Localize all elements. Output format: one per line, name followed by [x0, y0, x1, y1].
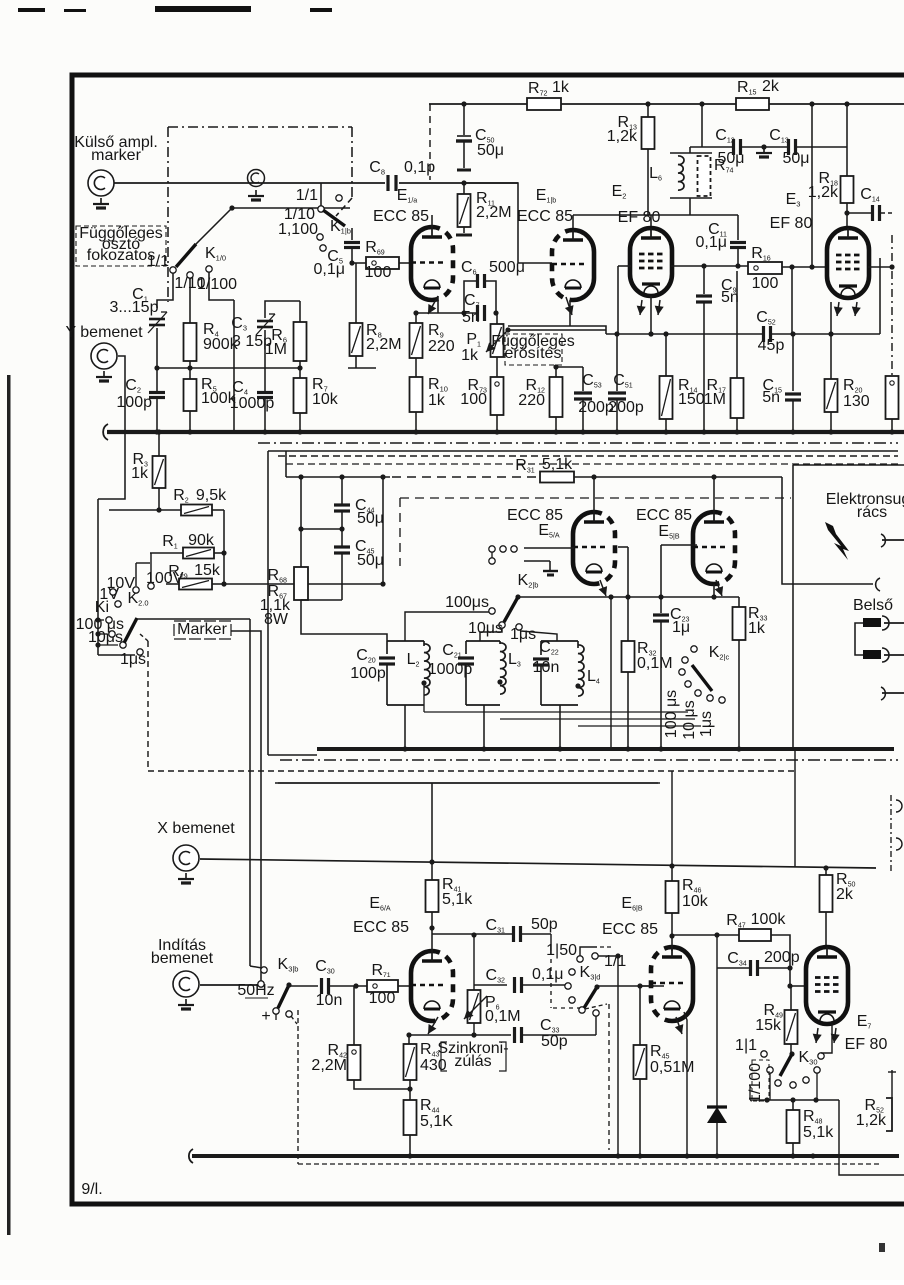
svg-text:100: 100: [365, 264, 392, 281]
wire: tank2 top to 10us contact: [480, 628, 502, 641]
svg-text:1|50: 1|50: [546, 942, 577, 959]
resistor R43: [404, 1044, 417, 1080]
svg-text:X bemenet: X bemenet: [157, 820, 235, 837]
wire: E1/a cathode line: [416, 312, 477, 314]
resistor R13: [645, 101, 650, 106]
wire: R68 bottom to oscillator: [301, 600, 387, 641]
resistor R14: [660, 376, 673, 419]
svg-text:100: 100: [752, 275, 779, 292]
resistor R15 on rail: [736, 98, 769, 110]
wire: divider chain vertical: [223, 510, 225, 584]
svg-text:Y bemenet: Y bemenet: [65, 324, 143, 341]
resistor R18: [844, 101, 849, 106]
svg-text:15k: 15k: [755, 1017, 782, 1034]
wire: wiper line down: [610, 597, 612, 749]
svg-text:8W: 8W: [264, 611, 289, 628]
wire: divider column to bus: [233, 300, 235, 431]
svg-text:1M: 1M: [704, 391, 726, 408]
svg-text:2k: 2k: [762, 78, 780, 95]
svg-text:9/l.: 9/l.: [81, 1181, 102, 1198]
wire: X input line: [200, 859, 876, 868]
capacitor C32: [474, 984, 507, 986]
wire: cathode bus y=334: [606, 333, 763, 335]
heater arrows E2: [640, 300, 642, 315]
svg-text:3...15p: 3...15p: [110, 299, 159, 316]
svg-text:10μs: 10μs: [88, 629, 123, 646]
CRT connection box right: [793, 464, 904, 466]
wire: E2 grid line: [671, 265, 748, 267]
svg-text:1μs: 1μs: [510, 626, 536, 643]
wire: K1/0 1/1 contact to C1: [157, 273, 173, 308]
capacitor C30: [289, 985, 318, 987]
print artifact: left page fold line: [7, 375, 11, 1235]
resistor R50: [820, 875, 833, 912]
svg-text:ECC 85: ECC 85: [517, 208, 573, 225]
svg-text:EF 80: EF 80: [845, 1036, 888, 1053]
svg-text:EF 80: EF 80: [770, 215, 813, 232]
svg-text:Marker: Marker: [177, 621, 227, 638]
svg-text:ECC 85: ECC 85: [353, 919, 409, 936]
svg-text:1/100: 1/100: [197, 276, 237, 293]
resistor R11: [458, 194, 471, 227]
cut connectors right edge: [896, 800, 902, 812]
svg-text:10V: 10V: [107, 575, 136, 592]
capacitor C44: [341, 477, 343, 505]
cathode arrow E6/A: [428, 1017, 438, 1034]
wire: HT to rács connector: [782, 477, 873, 584]
thick bus of sweep section: [317, 747, 894, 751]
resistor R9: [410, 323, 423, 358]
svg-text:50μ: 50μ: [357, 552, 384, 569]
svg-text:1,100: 1,100: [278, 221, 318, 238]
connector to CRT plate 2: [881, 687, 885, 700]
svg-text:9,5k: 9,5k: [196, 487, 227, 504]
svg-text:1|1: 1|1: [735, 1037, 757, 1054]
svg-text:1k: 1k: [428, 392, 446, 409]
potentiometer P1: [491, 324, 504, 357]
wire: R29 output to sweep: [224, 583, 383, 585]
svg-text:rács: rács: [857, 504, 887, 521]
resistor R10: [410, 377, 423, 412]
resistor R20: [825, 379, 838, 412]
capacitor C14: [847, 212, 871, 214]
svg-text:Ki: Ki: [95, 599, 109, 616]
resistor R32: [627, 597, 629, 641]
wire: C53 R12 node: [556, 366, 583, 368]
wire: marker box to delay line: [231, 631, 261, 981]
wire: E1/b cathode to C53 node: [508, 325, 570, 327]
svg-text:1/1: 1/1: [296, 187, 318, 204]
wire: screen grid feed E3: [809, 101, 814, 106]
wire: coil taps to K2/c: [424, 711, 688, 713]
resistor R31: [540, 472, 574, 483]
solid box of sweep section: [268, 450, 898, 452]
wire: E6/A cathode node: [409, 1034, 511, 1036]
svg-text:220: 220: [518, 392, 545, 409]
svg-text:220: 220: [428, 338, 455, 355]
ground near E5/A grid: [543, 570, 558, 572]
svg-text:90k: 90k: [188, 532, 215, 549]
wire: K30 contacts bottom: [750, 1099, 839, 1101]
resistor R68 R67: [294, 567, 308, 600]
svg-text:100: 100: [369, 990, 396, 1007]
dashed wire below rail corner: [429, 104, 431, 180]
dashed box: Fuggoleges oszto fokozatos: [76, 226, 166, 266]
grid wire for E2 from below: [617, 266, 619, 334]
cathode arrow E1/a: [428, 296, 438, 314]
svg-text:10k: 10k: [312, 391, 339, 408]
pentode E7 EF80: [806, 947, 848, 1024]
wire: Y input to divider: [98, 356, 125, 499]
svg-text:100k: 100k: [751, 911, 787, 928]
resistor R44: [404, 1100, 417, 1135]
grid contacts above K2/b: [489, 546, 495, 552]
svg-text:+: +: [261, 1008, 270, 1025]
node marker line / C50: [461, 180, 466, 185]
wire: E3 cathode: [830, 302, 832, 334]
resistor R7: [294, 378, 307, 413]
wire: P1 tap to E1/b cathode line: [508, 329, 606, 331]
svg-text:50μ: 50μ: [477, 142, 504, 159]
cathode arrow E5/B: [716, 580, 722, 596]
svg-text:erősítés: erősítés: [505, 345, 562, 362]
resistor R72 on rail: [527, 98, 561, 110]
svg-text:bemenet: bemenet: [151, 950, 214, 967]
inner dashed box of multivibrator: [400, 497, 791, 499]
svg-text:50p: 50p: [531, 916, 558, 933]
resistor R47: [672, 934, 739, 936]
svg-text:100: 100: [460, 391, 487, 408]
svg-text:1k: 1k: [131, 465, 149, 482]
resistor R5: [184, 379, 197, 411]
svg-text:5,1K: 5,1K: [420, 1113, 453, 1130]
svg-text:10k: 10k: [682, 893, 709, 910]
resistor R6: [294, 322, 307, 361]
resistor R8: [350, 323, 363, 356]
resistor R29: [166, 583, 179, 585]
print artifact: top edge dashes: [18, 8, 45, 12]
resistor R41: [431, 862, 433, 880]
svg-text:10n: 10n: [316, 992, 343, 1009]
wire: K1/0 wiper to divider top: [196, 208, 232, 244]
wire: C12/C13 line: [690, 146, 734, 148]
wire: anode distribution line y=215: [573, 214, 738, 216]
cathode arrow E6/B: [676, 1017, 682, 1034]
svg-text:1/1: 1/1: [147, 253, 169, 270]
resistor R12: [555, 367, 557, 377]
wire: filter node to R68: [301, 528, 342, 530]
wire: C52 to E3 cathode box: [771, 333, 880, 335]
Marker box: [174, 621, 231, 639]
ground between C12 C13: [761, 144, 766, 149]
dashed box Szinkronizalas: [441, 1042, 506, 1071]
resistor R42: [348, 1045, 361, 1080]
dash line from K2.0 to sweep box: [140, 634, 148, 641]
svg-text:2,2M: 2,2M: [476, 204, 512, 221]
resistor far right on bus: [886, 376, 899, 419]
capacitor C23: [660, 597, 662, 613]
wire: K2/b wiper line: [518, 596, 739, 598]
wire: sweep output drop lines: [431, 783, 433, 862]
svg-text:200p: 200p: [764, 949, 800, 966]
wire: K30 to R52 net: [839, 1100, 904, 1175]
electrolytic capacitor C50: [461, 101, 466, 106]
potentiometer P6: [473, 935, 475, 990]
HT rail top: [429, 103, 904, 105]
probe connector on marker line: [248, 170, 265, 187]
svg-text:1,2k: 1,2k: [856, 1112, 887, 1129]
svg-text:1μs: 1μs: [698, 711, 715, 737]
screen feed wire x=702: [699, 101, 704, 106]
svg-text:100 μs: 100 μs: [663, 690, 680, 738]
svg-text:1M: 1M: [265, 341, 287, 358]
svg-text:zúlás: zúlás: [454, 1053, 491, 1070]
resistor R33: [713, 584, 715, 597]
beam arrow symbol: [825, 522, 849, 560]
wire: R4-R5 tap line: [157, 367, 300, 369]
resistor R16: [748, 262, 782, 274]
svg-text:1μ: 1μ: [672, 619, 690, 636]
svg-text:ECC 85: ECC 85: [636, 507, 692, 524]
wire: K2.0 wiper line to marker amp: [137, 618, 250, 620]
resistor R45: [597, 985, 664, 987]
wire: tank1 top to 100us contact: [405, 612, 489, 641]
resistor R17: [736, 271, 738, 378]
svg-text:2k: 2k: [836, 886, 854, 903]
wire: K1/0 1/10 contact to R4: [189, 278, 191, 323]
heater arrows E7: [816, 1028, 818, 1043]
svg-text:5,1k: 5,1k: [442, 891, 473, 908]
svg-text:10 μs: 10 μs: [681, 700, 698, 739]
svg-text:50Hz: 50Hz: [237, 982, 274, 999]
svg-text:500μ: 500μ: [489, 259, 525, 276]
svg-text:100μs: 100μs: [445, 594, 489, 611]
open connector to CRT grid: [876, 578, 880, 591]
svg-text:2,2M: 2,2M: [366, 336, 402, 353]
svg-text:0,1μ: 0,1μ: [696, 234, 727, 251]
svg-text:0,51M: 0,51M: [650, 1059, 694, 1076]
svg-text:0,1M: 0,1M: [637, 655, 673, 672]
svg-text:ECC 85: ECC 85: [507, 507, 563, 524]
cathode arrow E1/b: [566, 297, 572, 315]
svg-text:0,1μ: 0,1μ: [314, 261, 345, 278]
wire: trigger input to switch: [200, 984, 258, 986]
wire: grid feed to E1/b: [464, 183, 552, 263]
switch K2.0 lever: [124, 618, 137, 643]
dashed box: Fuggoleges erosites: [505, 334, 562, 365]
resistor R74 (dashed): [698, 156, 711, 196]
svg-text:ECC 85: ECC 85: [373, 208, 429, 225]
svg-text:200p: 200p: [608, 399, 644, 416]
svg-text:50μ: 50μ: [357, 510, 384, 527]
switch K30: [789, 1051, 794, 1056]
svg-text:100p: 100p: [350, 665, 386, 682]
resistor R4: [184, 323, 197, 361]
svg-text:5n: 5n: [762, 389, 780, 406]
resistor R48: [792, 1100, 794, 1110]
svg-text:150: 150: [678, 391, 705, 408]
svg-text:100V: 100V: [146, 570, 184, 587]
svg-text:1k: 1k: [552, 79, 570, 96]
resistor R69: [366, 257, 399, 269]
svg-text:0,1μ: 0,1μ: [532, 966, 563, 983]
wire: E5/B grid cross-coupling: [661, 544, 697, 546]
wire: to E7 grid: [790, 985, 805, 987]
resistor R46: [666, 881, 679, 913]
capacitor C34: [716, 935, 718, 968]
wire: marker input line: [114, 182, 385, 184]
ground bus of X section (thick): [189, 1149, 193, 1163]
svg-text:1,2k: 1,2k: [607, 128, 638, 145]
wire: K2.0 left rail: [97, 499, 99, 655]
wire: 100V contact to R1: [150, 553, 152, 582]
svg-text:5,1k: 5,1k: [803, 1124, 834, 1141]
svg-text:Belső: Belső: [853, 597, 893, 614]
resistor R71: [367, 980, 398, 992]
HT line of sweep with R31: [286, 476, 390, 478]
resistor R2: [109, 509, 181, 511]
resistor R1: [150, 552, 183, 554]
wire: K1/0 1/100 contact down: [209, 272, 234, 300]
capacitor C15: [792, 334, 794, 391]
node: C1/R4 junction: [154, 365, 159, 370]
dashed screen line bottom: [297, 1010, 299, 1164]
ground at marker input: [100, 198, 102, 204]
dash-dot feedback line right: [891, 235, 893, 376]
resistor R49: [790, 986, 792, 1010]
dash-dot box top of sweep section: [258, 442, 898, 444]
wire: E5/A grid cross-coupling: [618, 546, 628, 548]
svg-text:15k: 15k: [194, 562, 221, 579]
svg-text:5n: 5n: [721, 289, 739, 306]
wire: E6/B grid: [640, 985, 654, 987]
ground bus of Y amplifier (thick): [103, 424, 108, 440]
dash-dot box around input attenuator K1: [168, 126, 352, 128]
svg-text:5,1k: 5,1k: [542, 456, 573, 473]
diode: [716, 968, 718, 1107]
wire: K2.0 to trigger takeoff: [249, 619, 251, 966]
svg-text:130: 130: [843, 393, 870, 410]
heater arrows E3: [837, 302, 839, 316]
svg-text:0,1M: 0,1M: [485, 1008, 521, 1025]
wire: tank3 top to 1us contact: [521, 631, 557, 641]
ground below probe connector: [255, 190, 257, 196]
resistor R3: [158, 432, 160, 456]
svg-text:marker: marker: [91, 147, 141, 164]
svg-text:fokozatos: fokozatos: [87, 247, 155, 264]
cathode arrow E5/A: [600, 580, 606, 596]
capacitor C9: [703, 266, 705, 294]
wire: E1/a anode to HT line: [431, 215, 433, 227]
svg-text:10n: 10n: [533, 659, 560, 676]
internal deflection plugs: [863, 618, 881, 627]
svg-text:100p: 100p: [116, 394, 152, 411]
resistor R73: [496, 357, 498, 377]
svg-text:1k: 1k: [748, 620, 766, 637]
dashed lines below sweep bus: [280, 759, 898, 761]
capacitor C11: [737, 215, 739, 240]
stray mark bottom right: [879, 1243, 885, 1252]
wire: E6/A anode to C31: [432, 933, 513, 935]
svg-text:10μs: 10μs: [468, 620, 503, 637]
svg-text:EF 80: EF 80: [618, 209, 661, 226]
svg-text:1k: 1k: [461, 347, 479, 364]
svg-text:ECC 85: ECC 85: [602, 921, 658, 938]
connector to CRT plate 1: [881, 534, 885, 547]
svg-text:2,2M: 2,2M: [311, 1057, 347, 1074]
